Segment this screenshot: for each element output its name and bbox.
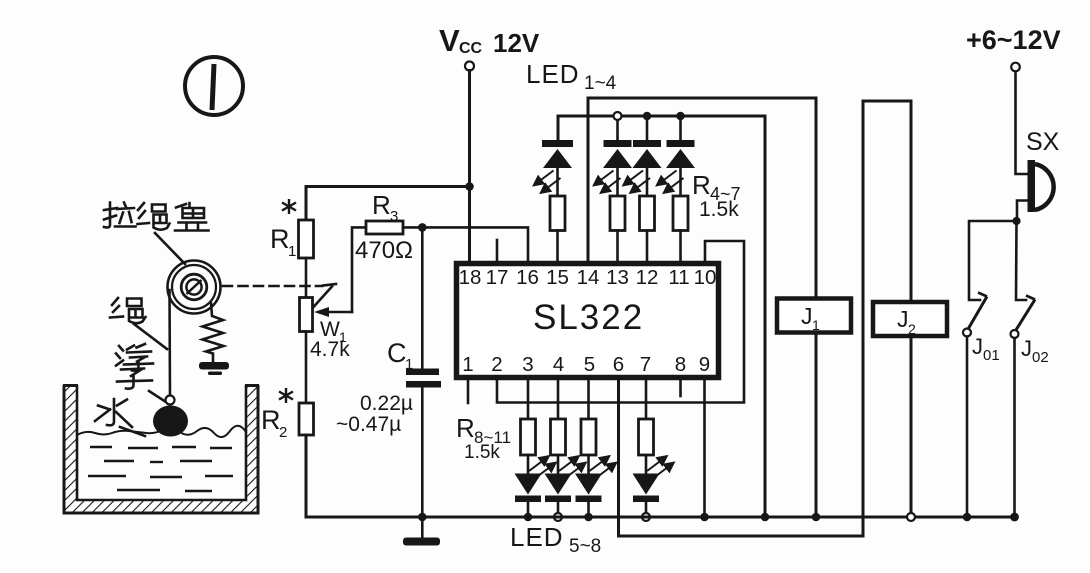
svg-text:1: 1 xyxy=(812,317,820,333)
LED6 light emission arrows xyxy=(559,456,586,478)
svg-text:10: 10 xyxy=(694,266,717,289)
node bus end joint xyxy=(1010,513,1019,522)
switch J02 xyxy=(1011,296,1036,339)
pointer water label to waterline xyxy=(120,427,145,436)
svg-text:J: J xyxy=(897,306,909,332)
label sheng (rope) xyxy=(110,298,146,323)
ground symbol below bus xyxy=(403,517,440,546)
node LED2 top bus joint xyxy=(614,112,622,120)
label fu (float) xyxy=(116,344,153,371)
wire junction to J01 upper contact xyxy=(969,221,1017,300)
resistor R9 xyxy=(551,419,566,455)
wire LED cathode bus to ground drop xyxy=(558,116,765,517)
svg-text:1.5k: 1.5k xyxy=(464,442,500,463)
wire W1 wiper to R3 left xyxy=(352,227,366,312)
label R2 xyxy=(261,405,287,441)
svg-text:17: 17 xyxy=(486,266,509,289)
wire R1 to W1 xyxy=(305,258,308,298)
figure number 1 badge xyxy=(185,57,243,115)
svg-text:18: 18 xyxy=(459,266,482,289)
svg-text:12: 12 xyxy=(636,266,659,289)
svg-text:C: C xyxy=(387,338,407,368)
svg-text:11: 11 xyxy=(668,266,689,289)
svg-text:1~4: 1~4 xyxy=(584,73,617,94)
wire J01 to ground bus xyxy=(966,337,969,518)
svg-text:1: 1 xyxy=(288,243,296,260)
wire R1 top to Vcc line xyxy=(306,187,470,221)
buzzer SX xyxy=(1028,160,1054,212)
wire IC pin to R11 xyxy=(645,377,648,419)
water shading dashes xyxy=(88,447,233,491)
node LED5 bus junction xyxy=(524,513,533,522)
resistor R11 xyxy=(639,419,654,455)
waterline wavy xyxy=(77,426,246,437)
svg-text:7: 7 xyxy=(640,353,651,376)
relay J1 xyxy=(777,299,851,333)
wire stub LED3 to top bus xyxy=(646,116,649,141)
wire junction to C1 xyxy=(421,227,424,369)
node C1 ground junction xyxy=(418,513,427,522)
node LED4 top bus joint xyxy=(676,112,685,121)
wire R3 to IC pin 16 xyxy=(403,227,528,263)
wire pin 6 to relay J2 top xyxy=(619,101,912,536)
asterisk mark for R2 xyxy=(279,388,293,403)
svg-text:9: 9 xyxy=(699,353,710,376)
wire buzzer to switch junction xyxy=(1017,201,1029,222)
svg-text:5~8: 5~8 xyxy=(569,536,601,557)
svg-text:12V: 12V xyxy=(493,28,540,58)
node J2 bus joint open xyxy=(907,513,915,521)
svg-text:R: R xyxy=(456,413,475,443)
pin 17 stub wire xyxy=(496,240,499,263)
wire junction to J02 upper contact xyxy=(1016,221,1026,300)
svg-text:+6~12V: +6~12V xyxy=(966,25,1061,55)
svg-text:4.7k: 4.7k xyxy=(310,338,350,361)
label LED5~8 xyxy=(510,522,601,557)
LED LED2 xyxy=(603,140,632,196)
resistor R10 xyxy=(581,419,596,455)
label C1 value xyxy=(336,392,413,436)
LED LED8 xyxy=(633,455,660,517)
label R4~7 xyxy=(692,170,741,204)
svg-text:470Ω: 470Ω xyxy=(355,237,413,264)
wire J02 to ground bus end xyxy=(1013,338,1016,519)
svg-text:16: 16 xyxy=(516,266,539,289)
svg-text:V: V xyxy=(439,23,460,58)
label J02 xyxy=(1021,336,1049,366)
node LED bus drop junction xyxy=(761,513,770,522)
op-amp/driver IC SL322 xyxy=(457,264,719,378)
svg-text:LED: LED xyxy=(526,59,580,89)
svg-text:SL322: SL322 xyxy=(533,298,644,337)
label J01 xyxy=(972,334,1000,364)
svg-text:~0.47µ: ~0.47µ xyxy=(336,413,401,436)
node J1 bus junction xyxy=(812,513,821,522)
node LED8 bus junction xyxy=(642,513,650,521)
IC top pin numbers 18-10 xyxy=(459,266,717,289)
resistor R8 xyxy=(521,419,536,455)
label R8~11 xyxy=(456,413,511,447)
svg-text:2: 2 xyxy=(279,424,287,441)
wire IC pin to R10 xyxy=(587,377,590,419)
node J01 bus junction xyxy=(963,513,972,522)
resistor R5 xyxy=(610,196,625,231)
svg-text:2: 2 xyxy=(491,353,502,376)
wire C1 to ground bus xyxy=(421,388,424,518)
wire stub LED2 to top bus xyxy=(616,116,619,141)
label C1 xyxy=(387,338,413,373)
svg-text:R: R xyxy=(270,224,290,254)
wire R5 to IC pin xyxy=(616,231,619,264)
svg-text:4: 4 xyxy=(553,353,564,376)
svg-text:3: 3 xyxy=(522,353,533,376)
svg-text:14: 14 xyxy=(577,266,600,289)
resistor R4 xyxy=(550,196,565,231)
potentiometer W1 body xyxy=(300,298,313,332)
resistor R3 xyxy=(366,221,403,234)
wire R7 to IC pin xyxy=(679,231,682,264)
svg-text:1: 1 xyxy=(462,353,473,376)
LED1 light emission arrows xyxy=(534,171,561,194)
node LED3 top bus joint xyxy=(643,112,652,121)
dashed mechanical link pulley to W1 xyxy=(223,285,322,288)
node LED7 bus junction xyxy=(584,513,593,522)
svg-text:5: 5 xyxy=(584,353,595,376)
wire main ground bus xyxy=(422,516,1015,519)
wire R4 to IC pin xyxy=(556,231,559,264)
float ball xyxy=(153,396,188,437)
label zi (of float-zi) xyxy=(117,369,152,389)
switch J01 xyxy=(963,293,987,337)
+6~12V terminal circle xyxy=(1011,63,1020,72)
LED LED3 xyxy=(633,140,662,196)
IC bottom pin numbers 1-9 xyxy=(462,353,710,376)
node switch feed junction xyxy=(1012,217,1020,225)
wire supply to buzzer SX xyxy=(1016,72,1030,175)
svg-text:SX: SX xyxy=(1026,128,1060,156)
svg-text:8: 8 xyxy=(675,353,686,376)
LED8 light emission arrows xyxy=(647,456,674,478)
wire pin 1 stub xyxy=(467,377,470,403)
pulley (rope reel) xyxy=(168,261,221,314)
resistor R1 xyxy=(299,220,314,258)
wire IC pin to R9 xyxy=(557,377,560,419)
svg-text:R: R xyxy=(372,190,391,220)
LED LED1 xyxy=(542,140,573,196)
svg-text:13: 13 xyxy=(606,266,629,289)
node R3-C1 junction xyxy=(418,223,427,232)
svg-text:02: 02 xyxy=(1032,349,1049,366)
label J1 xyxy=(801,303,820,333)
svg-text:01: 01 xyxy=(983,347,1000,364)
capacitor C1 xyxy=(406,369,441,388)
resistor R6 xyxy=(640,196,655,231)
wire J1 to ground bus xyxy=(815,333,818,518)
asterisk mark for R1 xyxy=(282,199,296,214)
water tank walls hatched xyxy=(63,385,259,513)
pointer float label to ball xyxy=(149,391,169,404)
label R1 xyxy=(270,224,296,260)
power terminal Vcc 12V label xyxy=(439,23,540,58)
wire IC pin to R8 xyxy=(527,377,530,419)
LED3 light emission arrows xyxy=(623,171,650,194)
LED LED6 xyxy=(545,455,572,517)
wire pin 8 stub xyxy=(679,377,682,396)
LED LED5 xyxy=(515,455,542,517)
resistor R2 xyxy=(299,403,314,435)
node Vcc junction with R1 top wire xyxy=(465,182,474,191)
pointer rope label to rope xyxy=(134,324,167,349)
label W1 xyxy=(320,318,347,345)
W1 wiper arrow xyxy=(314,307,352,317)
resistor R7 xyxy=(673,196,688,231)
wire R2 to ground bus xyxy=(306,435,422,517)
LED5 light emission arrows xyxy=(529,456,556,478)
wire top bus pin14 to J1 xyxy=(588,98,816,299)
label J2 xyxy=(897,306,916,337)
svg-text:6: 6 xyxy=(613,353,624,376)
wire J2 to ground bus xyxy=(910,336,913,513)
wire pin 9 to ground bus xyxy=(703,377,706,517)
node LED6 bus junction xyxy=(554,513,562,521)
label la-sheng-pan (pull rope reel) xyxy=(104,203,209,231)
svg-text:R: R xyxy=(261,405,281,435)
svg-text:LED: LED xyxy=(510,522,564,552)
svg-text:1.5k: 1.5k xyxy=(699,198,739,221)
wire pin 2 to pin 10 wrap-around xyxy=(497,241,744,403)
svg-text:R: R xyxy=(692,170,711,200)
pointer line label to pulley xyxy=(155,233,185,264)
LED4 light emission arrows xyxy=(657,171,684,194)
anchor ground bar xyxy=(199,362,229,375)
svg-text:J: J xyxy=(801,303,813,329)
svg-text:J: J xyxy=(972,334,983,359)
wire stub LED4 to top bus xyxy=(679,116,682,141)
Vcc terminal circle xyxy=(465,62,474,71)
LED LED4 xyxy=(666,140,695,196)
LED LED7 xyxy=(575,455,602,517)
label shui (water) xyxy=(95,399,132,427)
LED7 light emission arrows xyxy=(590,456,617,478)
label R3 xyxy=(372,190,398,225)
spring to anchor xyxy=(203,303,224,363)
svg-text:J: J xyxy=(1021,336,1032,361)
node pin 9 bus junction xyxy=(700,513,709,522)
rope line from pulley to float xyxy=(168,290,171,398)
svg-text:0.22µ: 0.22µ xyxy=(360,392,413,415)
wire R6 to IC pin xyxy=(646,231,649,264)
LED2 light emission arrows xyxy=(594,171,621,194)
wire W1 to R2 xyxy=(305,332,308,404)
wire Vcc to IC pin 18 xyxy=(468,71,471,264)
svg-text:CC: CC xyxy=(459,40,483,57)
relay J2 xyxy=(873,302,947,336)
W1 shaft arrow xyxy=(313,284,336,308)
svg-text:15: 15 xyxy=(546,266,569,289)
label LED1~4 xyxy=(526,59,617,94)
